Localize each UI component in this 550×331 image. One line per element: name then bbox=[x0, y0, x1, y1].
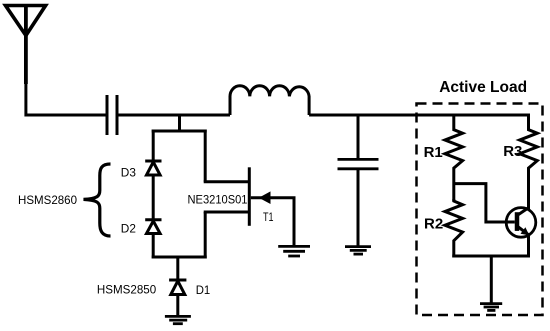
transistor Q1 base bar bbox=[515, 212, 520, 231]
svg-text:R1: R1 bbox=[424, 144, 443, 161]
brace HSMS2860 bbox=[84, 164, 111, 236]
wire left branch to D3 bbox=[152, 130, 155, 161]
wire D2 down bbox=[152, 234, 155, 259]
transistor T1 gate wire bbox=[251, 198, 294, 245]
svg-text:R3: R3 bbox=[503, 143, 522, 160]
transistor Q1 circle bbox=[506, 208, 536, 238]
ground (gate) bbox=[278, 246, 310, 256]
wire bottom bar bbox=[152, 256, 207, 259]
transistor Q1 emitter arrow bbox=[521, 227, 530, 235]
resistor R2 bbox=[445, 199, 463, 258]
wire to active load ground bbox=[490, 256, 493, 303]
antenna bbox=[6, 6, 46, 114]
wire right branch lower bbox=[204, 212, 207, 259]
diode D1 bbox=[169, 280, 186, 295]
wire D3 to D2 bbox=[152, 175, 155, 219]
wire right branch upper bbox=[204, 130, 207, 182]
svg-text:D2: D2 bbox=[121, 222, 136, 236]
transistor T1 gate arrow bbox=[259, 191, 271, 204]
node junction stub bbox=[178, 115, 181, 131]
svg-text:T1: T1 bbox=[263, 210, 274, 224]
diode D2 bbox=[145, 220, 161, 234]
active load dashed box bbox=[417, 104, 543, 316]
wire C1 to L1 bbox=[119, 114, 231, 117]
diode D3 bbox=[145, 161, 161, 175]
transistor T1 channel bar bbox=[248, 167, 251, 226]
inductor L1 bbox=[230, 86, 309, 115]
wire branch bar bbox=[152, 130, 207, 133]
ground (D1) bbox=[165, 316, 191, 323]
transistor T1 drain lead bbox=[204, 180, 250, 183]
wire node to C2 bbox=[357, 115, 360, 159]
svg-text:Active Load: Active Load bbox=[439, 79, 527, 96]
capacitor C1 (series) bbox=[107, 95, 117, 135]
wire node to D1 bbox=[176, 257, 179, 279]
wire L1 to active load bbox=[309, 114, 528, 117]
resistor R1 bbox=[445, 114, 463, 202]
capacitor C2 (shunt) bbox=[338, 159, 379, 168]
svg-text:HSMS2860: HSMS2860 bbox=[18, 193, 77, 207]
ground (C2) bbox=[345, 247, 371, 255]
svg-text:D1: D1 bbox=[196, 283, 211, 297]
wire active load bottom bbox=[452, 255, 530, 258]
svg-text:R2: R2 bbox=[424, 216, 443, 233]
transistor Q1 emitter bbox=[517, 226, 529, 258]
svg-text:HSMS2850: HSMS2850 bbox=[97, 282, 157, 296]
wire antenna to C1 bbox=[24, 114, 105, 117]
wire C2 to ground bbox=[357, 170, 360, 246]
svg-text:D3: D3 bbox=[121, 166, 136, 180]
ground (active load) bbox=[480, 304, 502, 311]
transistor T1 source lead bbox=[204, 211, 250, 214]
transistor Q1 collector bbox=[517, 208, 529, 216]
svg-text:NE3210S01: NE3210S01 bbox=[188, 193, 248, 207]
resistor R3 bbox=[520, 114, 538, 211]
wire R1/R2 node to base bbox=[454, 184, 515, 222]
wire D1 to ground bbox=[176, 295, 179, 316]
